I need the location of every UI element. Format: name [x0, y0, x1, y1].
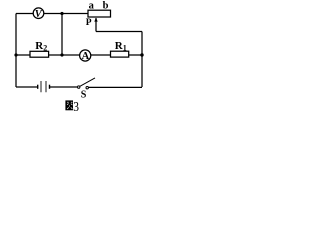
svg-text:A: A: [82, 51, 90, 62]
svg-text:R1: R1: [115, 40, 127, 53]
svg-text:S: S: [81, 90, 87, 101]
svg-text:R2: R2: [35, 40, 47, 53]
svg-text:3: 3: [73, 99, 79, 114]
svg-text:P: P: [86, 18, 92, 28]
svg-text:b: b: [103, 0, 109, 11]
svg-text:a: a: [89, 1, 95, 12]
svg-text:V: V: [35, 9, 43, 20]
